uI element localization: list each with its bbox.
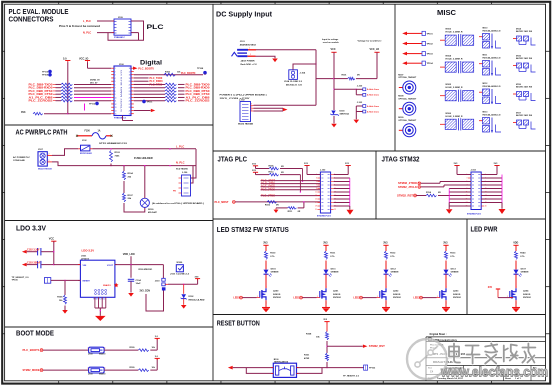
svg-text:1: 1 [49,160,50,162]
svg-text:3: 3 [115,75,116,77]
svg-text:20: 20 [485,206,487,208]
svg-text:W100: W100 [177,262,183,264]
svg-text:W5019: W5019 [99,374,106,376]
svg-text:STM32_RST: STM32_RST [397,194,413,198]
svg-text:15: 15 [315,199,317,201]
svg-text:2: 2 [115,71,116,73]
svg-text:R104: R104 [128,172,134,175]
svg-text:HOLE_3.2MM_R: HOLE_3.2MM_R [446,87,463,89]
svg-text:STM32_MODE: STM32_MODE [23,368,40,372]
svg-text:R107: R107 [128,195,134,197]
svg-text:11: 11 [315,192,317,194]
svg-text:L_PLC: L_PLC [176,145,184,149]
svg-text:3V0: 3V0 [488,286,493,289]
svg-text:TP101: TP101 [427,33,434,35]
svg-text:13: 13 [115,107,117,109]
svg-text:VOUT: VOUT [107,265,114,267]
svg-text:TP111: TP111 [147,101,154,103]
svg-text:455-5447: 455-5447 [148,211,158,214]
svg-text:84/CWC 1401 WS: 84/CWC 1401 WS [516,114,533,117]
svg-text:84/CWC 1401 WS: 84/CWC 1401 WS [516,57,533,60]
svg-text:N-MOS: N-MOS [393,294,401,296]
svg-text:26: 26 [129,101,131,103]
svg-text:U101: U101 [81,256,87,258]
svg-text:LED PWR: LED PWR [471,227,498,234]
svg-text:F100: F100 [85,130,91,132]
svg-text:19: 19 [129,78,131,80]
svg-text:W5019: W5019 [99,354,106,356]
svg-text:22: 22 [129,88,131,90]
svg-text:M107: M107 [398,74,404,76]
svg-text:27: 27 [129,104,131,106]
svg-text:D107: D107 [521,269,527,271]
svg-text:3V3: 3V3 [263,241,268,244]
svg-text:12: 12 [115,104,117,106]
svg-text:LDO-3.3V: LDO-3.3V [82,249,95,253]
svg-text:JTAG STM32: JTAG STM32 [382,157,420,164]
svg-text:TP105: TP105 [12,280,19,282]
svg-text:17: 17 [315,202,317,204]
svg-text:FIDUCIAL-ADESL1-ID: FIDUCIAL-ADESL1-ID [483,30,501,33]
svg-text:DGND_5V: DGND_5V [90,79,100,81]
svg-text:SKRTLAE010: SKRTLAE010 [274,361,289,364]
svg-text:J111 CLOSE 2-3: J111 CLOSE 2-3 [170,274,190,276]
svg-text:3: 3 [251,109,252,111]
svg-text:D112: D112 [391,269,397,271]
svg-text:19: 19 [315,206,317,208]
svg-text:Input for voltage: Input for voltage [322,38,339,41]
svg-text:TP103: TP103 [369,368,376,370]
svg-text:484/0800/1802: 484/0800/1802 [240,44,257,47]
svg-text:A Hole 2mm: A Hole 2mm [367,94,379,97]
svg-text:STM32_RST: STM32_RST [369,344,385,348]
svg-text:3: 3 [316,178,317,180]
svg-text:LF33CV: LF33CV [81,258,90,260]
svg-text:PLC_NRST: PLC_NRST [215,200,229,204]
svg-text:PLC: PLC [147,24,164,31]
svg-text:LDO 3.3V: LDO 3.3V [16,225,46,232]
svg-text:M105: M105 [446,84,452,86]
svg-text:5: 5 [115,81,116,83]
svg-text:3V3: 3V3 [443,241,448,244]
svg-text:(A soldered to red PILL) UPPER: (A soldered to red PILL) UPPER BOARD ) [152,202,204,205]
svg-text:4: 4 [115,78,116,80]
svg-text:J104 CLOSE 2-3: J104 CLOSE 2-3 [284,80,303,83]
svg-text:1: 1 [88,348,89,350]
svg-text:84/CWC 1401 WS: 84/CWC 1401 WS [516,86,533,89]
svg-text:SCD HDD90: SCD HDD90 [176,169,189,171]
svg-text:BOOT MODE: BOOT MODE [16,331,54,338]
svg-text:3V3: 3V3 [383,241,388,244]
svg-text:VIN: VIN [83,265,87,267]
svg-text:21: 21 [315,209,317,211]
svg-text:OPTICAL_TARGET: OPTICAL_TARGET [398,97,417,100]
svg-text:LED STM32 FW STATUS: LED STM32 FW STATUS [217,227,289,234]
svg-text:3V3_CON: 3V3_CON [140,290,151,292]
svg-text:15: 15 [115,114,117,116]
svg-text:N_PLC: N_PLC [176,160,185,164]
svg-text:N-MOS: N-MOS [273,294,281,296]
svg-text:3: 3 [467,178,468,180]
svg-text:3V3_CON +C3V: 3V3_CON +C3V [220,98,251,100]
svg-text:C104: C104 [136,279,142,282]
svg-text:R112: R112 [269,172,275,174]
svg-text:STZ2 HDB4B1K1C01: STZ2 HDB4B1K1C01 [99,142,128,145]
svg-text:A Hole 2mm: A Hole 2mm [367,110,379,113]
svg-text:M103: M103 [446,29,452,31]
svg-text:TP108: TP108 [197,68,204,70]
svg-text:N-MOS: N-MOS [333,294,341,296]
svg-text:AC POWER PLC: AC POWER PLC [13,156,30,159]
svg-text:PLC EVAL. MODULE: PLC EVAL. MODULE [9,9,69,16]
svg-text:VCC_LD: VCC_LD [370,48,380,51]
svg-text:Pins 5 & 8 must be removed: Pins 5 & 8 must be removed [59,25,101,28]
svg-text:Q101: Q101 [333,291,339,293]
svg-text:3V3: 3V3 [21,111,26,114]
svg-text:M106: M106 [446,113,452,115]
svg-text:9: 9 [115,94,116,96]
svg-text:LED1: LED1 [293,297,300,300]
svg-text:21: 21 [129,84,131,86]
svg-text:6: 6 [115,84,116,86]
svg-text:FIDUCIAL-ADESL1-ID: FIDUCIAL-ADESL1-ID [483,85,501,88]
svg-text:TP109: TP109 [42,75,49,77]
svg-text:www.elecfans.com: www.elecfans.com [440,364,548,380]
svg-text:PLC_BOOT0: PLC_BOOT0 [138,67,154,71]
svg-text:2: 2 [250,54,251,56]
svg-text:J-100: J-100 [357,85,363,87]
svg-text:TP110: TP110 [42,71,49,73]
svg-text:Rack NOK. +CU: Rack NOK. +CU [241,64,257,66]
svg-text:1A: 1A [98,129,101,132]
svg-text:POWER 5 to (PILL) UPPER BOARD: POWER 5 to (PILL) UPPER BOARD ) [220,93,267,96]
svg-text:R112: R112 [390,253,396,255]
svg-text:STM32_JTDIO: STM32_JTDIO [398,181,417,185]
svg-text:J-104: J-104 [300,72,306,75]
svg-text:OPTICAL_TARGET: OPTICAL_TARGET [398,76,417,79]
svg-text:2: 2 [251,107,252,109]
svg-text:30: 30 [129,114,131,116]
svg-text:OPTICAL_TARGET: OPTICAL_TARGET [398,119,417,122]
svg-text:23: 23 [129,91,131,93]
svg-text:D111: D111 [331,269,337,271]
svg-text:VCC: VCC [49,238,54,241]
svg-text:GREEN: GREEN [521,272,529,274]
svg-text:D102: D102 [189,296,195,298]
svg-text:PLC_BOOT1: PLC_BOOT1 [23,348,41,352]
svg-text:R105: R105 [269,165,275,167]
svg-text:2N7002: 2N7002 [453,297,461,299]
svg-text:R114: R114 [426,191,432,194]
svg-text:J-103: J-103 [357,102,363,104]
svg-text:10uF: 10uF [136,283,142,285]
svg-text:R103: R103 [115,152,121,154]
svg-text:18: 18 [129,75,131,77]
svg-text:R109: R109 [130,347,136,349]
svg-text:25: 25 [129,97,131,99]
svg-text:MISC: MISC [437,10,456,17]
svg-text:D113: D113 [451,269,457,271]
svg-text:Q102: Q102 [393,291,399,293]
svg-text:M108: M108 [398,96,404,98]
svg-text:J101: J101 [240,41,246,43]
svg-text:R100 MW1101: R100 MW1101 [139,269,154,271]
svg-text:C103 330nF: C103 330nF [27,262,41,265]
svg-text:Digital: Digital [140,60,162,67]
svg-text:L_PLC: L_PLC [83,20,91,23]
svg-text:PLC_BOOT0: PLC_BOOT0 [181,72,196,75]
svg-text:BT20M07CD1: BT20M07CD1 [467,214,482,216]
svg-text:CONNECTORS: CONNECTORS [9,16,54,23]
svg-text:W222 HDD4B: W222 HDD4B [238,123,254,126]
svg-text:used on module: used on module [323,42,340,44]
svg-text:1: 1 [251,104,252,106]
svg-text:J-103: J-103 [471,170,477,172]
svg-text:2: 2 [49,154,50,156]
svg-text:DIG_5V: DIG_5V [90,82,98,84]
svg-text:TP_HEIGHT_2.0: TP_HEIGHT_2.0 [12,277,30,279]
svg-text:R105: R105 [57,297,63,299]
svg-text:9: 9 [316,188,317,190]
svg-text:BT20M07CD1: BT20M07CD1 [317,215,332,217]
svg-text:VDD: VDD [513,241,518,244]
svg-text:FIDUCIAL-ADESL1-ID: FIDUCIAL-ADESL1-ID [483,114,501,117]
svg-text:HOLE_3.2MM_R: HOLE_3.2MM_R [446,116,463,118]
svg-text:R140: R140 [520,252,526,255]
svg-text:750k: 750k [115,155,121,157]
svg-text:RESET BUTTON: RESET BUTTON [217,321,260,328]
svg-text:5: 5 [316,181,317,183]
svg-text:STM32 MAIN BUS I/O: STM32 MAIN BUS I/O [120,69,123,112]
svg-text:PLC_ZCROSS: PLC_ZCROSS [186,99,210,103]
svg-text:REGALCA-RED: REGALCA-RED [189,298,206,301]
svg-text:2N7002: 2N7002 [393,297,401,299]
svg-text:INHIBIT: INHIBIT [83,281,91,283]
svg-text:J-106: J-106 [182,172,188,174]
svg-text:10: 10 [115,97,117,99]
svg-text:28: 28 [129,107,131,109]
svg-text:A Hole 2mm: A Hole 2mm [367,88,379,91]
svg-text:N-MOS: N-MOS [523,294,531,296]
svg-text:11: 11 [115,101,117,103]
svg-text:J-102: J-102 [320,170,326,172]
svg-text:TP104: TP104 [427,62,434,65]
svg-text:GREEN: GREEN [331,272,339,274]
svg-text:ERZV10D431: ERZV10D431 [80,152,93,155]
svg-text:PXB0081C1: PXB0081C1 [114,118,127,120]
svg-text:VCC: VCC [331,48,336,51]
svg-text:W222 HSSCK: W222 HSSCK [38,169,53,171]
svg-text:PLC_ZCROSS: PLC_ZCROSS [29,99,53,103]
svg-text:1: 1 [115,68,116,70]
svg-text:2N7002: 2N7002 [523,297,531,299]
svg-text:TP112: TP112 [89,103,96,105]
svg-text:D100: D100 [340,110,346,112]
svg-text:DC Supply Input: DC Supply Input [216,11,273,18]
svg-text:R111: R111 [288,211,294,213]
svg-text:STM32_JTCLK: STM32_JTCLK [398,185,417,189]
svg-text:HOLE_3.2MM_R: HOLE_3.2MM_R [446,32,463,34]
svg-text:1: 1 [249,48,250,50]
svg-text:NSAVLV: NSAVLV [103,284,111,287]
svg-text:PXB0081C: PXB0081C [114,37,125,39]
svg-text:GREEN: GREEN [451,272,459,274]
svg-text:16: 16 [129,68,131,70]
svg-text:22: 22 [334,209,336,211]
svg-text:Original Sheet :: Original Sheet : [430,333,447,336]
svg-text:470R: 470R [304,357,310,360]
svg-text:N-MOS: N-MOS [453,294,461,296]
svg-text:R106: R106 [265,204,271,206]
svg-text:14: 14 [115,110,117,112]
svg-text:R110: R110 [270,253,276,255]
svg-text:Q104: Q104 [523,290,529,293]
svg-text:C102 3.3uF: C102 3.3uF [27,249,40,252]
svg-text:J107: J107 [38,149,44,151]
svg-text:CONN LAB: CONN LAB [13,159,25,162]
svg-text:R113: R113 [450,253,456,255]
svg-text:N_PLC: N_PLC [83,32,91,35]
svg-text:GREEN: GREEN [271,272,279,274]
svg-text:AC PWR/PLC PATH: AC PWR/PLC PATH [16,130,68,137]
svg-text:17: 17 [129,71,131,73]
svg-text:FUSE HOLDER: FUSE HOLDER [134,156,153,160]
svg-text:GREEN: GREEN [391,272,399,274]
svg-text:R101: R101 [304,355,310,357]
svg-text:2: 2 [516,287,517,289]
svg-text:29: 29 [129,110,131,112]
svg-text:2: 2 [326,287,327,289]
svg-text:HOLE_3.2MM_R: HOLE_3.2MM_R [446,59,463,61]
svg-text:VDD_LDO: VDD_LDO [123,253,135,256]
svg-text:8: 8 [115,91,116,93]
svg-text:Q100: Q100 [273,291,279,293]
svg-text:13: 13 [315,195,317,197]
svg-text:M109: M109 [398,117,404,119]
svg-text:2N7002: 2N7002 [333,297,341,299]
svg-text:4B 2022-11 C31: 4B 2022-11 C31 [286,84,303,87]
svg-text:Q103: Q103 [453,291,459,293]
svg-text:TP102: TP102 [427,44,434,46]
svg-text:W100: W100 [148,209,154,211]
svg-text:FIDUCIAL-ADESL1-ID: FIDUCIAL-ADESL1-ID [483,57,501,60]
svg-text:D110: D110 [271,269,277,271]
svg-text:84/CWC 1401 WS: 84/CWC 1401 WS [516,30,533,33]
svg-text:Voltage for LineDriver: Voltage for LineDriver [358,40,382,43]
svg-text:JTAG PLC: JTAG PLC [218,157,248,164]
svg-text:SM6T15A: SM6T15A [340,112,350,115]
svg-text:LED0: LED0 [233,297,240,300]
svg-text:JACK POWER: JACK POWER [241,60,255,63]
svg-text:M104: M104 [446,55,452,58]
svg-text:R106: R106 [165,72,171,74]
svg-text:TP103: TP103 [427,54,434,56]
svg-text:TP_HEIGHT_2.0: TP_HEIGHT_2.0 [343,375,360,377]
svg-text:J110: J110 [155,281,161,283]
svg-text:LED2: LED2 [353,297,360,300]
svg-text:A Hole 2mm: A Hole 2mm [367,105,379,108]
svg-text:3V3: 3V3 [323,241,328,244]
svg-text:2N7002: 2N7002 [273,297,281,299]
svg-text:7: 7 [316,185,317,187]
svg-text:R111: R111 [330,253,336,255]
svg-text:20: 20 [129,81,131,83]
svg-text:R109: R109 [130,367,136,369]
svg-text:2: 2 [266,287,267,289]
svg-text:2: 2 [446,287,447,289]
svg-text:1: 1 [88,368,89,370]
svg-text:LED3: LED3 [413,297,420,300]
svg-text:2: 2 [386,287,387,289]
svg-text:24: 24 [129,94,131,96]
svg-text:7: 7 [115,88,116,90]
svg-text:R101: R101 [342,75,348,77]
svg-text:R108: R108 [306,333,312,335]
